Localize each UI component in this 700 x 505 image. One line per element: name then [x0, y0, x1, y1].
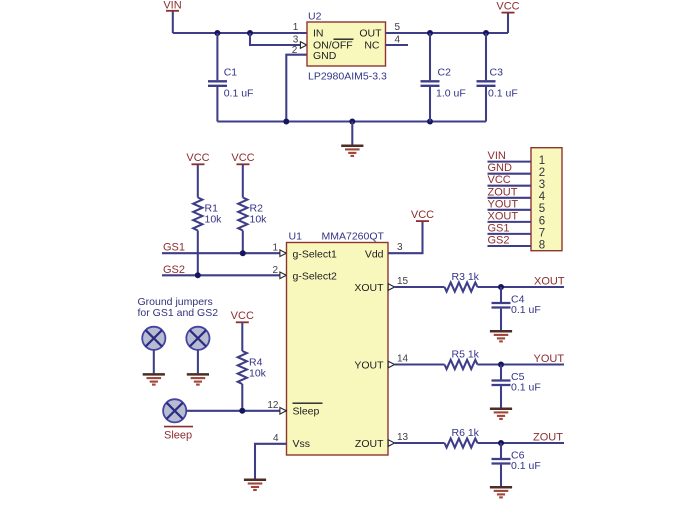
capacitor C5 [492, 365, 541, 408]
svg-text:XOUT: XOUT [354, 282, 384, 294]
svg-text:MMA7260QT: MMA7260QT [322, 231, 385, 243]
ground (below C5) [490, 409, 512, 419]
svg-text:4: 4 [273, 433, 279, 444]
junction C2 top [427, 30, 433, 36]
svg-text:7: 7 [539, 227, 545, 239]
junction C6 top [498, 440, 504, 446]
wire JP2 to ground [197, 350, 199, 374]
pin arrow U1 pin 13 [388, 440, 394, 447]
junction ground stem [349, 119, 355, 125]
svg-text:Vss: Vss [293, 438, 311, 450]
svg-text:4: 4 [395, 34, 401, 45]
jumper JP3 (Sleep) [163, 399, 186, 422]
svg-text:ZOUT: ZOUT [355, 438, 384, 450]
svg-text:2: 2 [272, 265, 278, 276]
svg-text:XOUT: XOUT [534, 275, 565, 287]
svg-text:5: 5 [395, 22, 401, 33]
svg-text:VCC: VCC [411, 209, 434, 221]
svg-text:12: 12 [267, 400, 279, 411]
capacitor C2 [421, 33, 466, 122]
svg-text:VCC: VCC [186, 152, 209, 164]
svg-text:8: 8 [539, 239, 545, 251]
svg-text:IN: IN [313, 27, 324, 39]
power flag VCC (above R4) [231, 310, 254, 351]
wire U2 pin2 GND down [286, 55, 307, 122]
svg-text:for GS1 and GS2: for GS1 and GS2 [138, 307, 219, 319]
svg-text:ZOUT: ZOUT [488, 186, 518, 198]
wire U2 OUT rail to VCC [386, 32, 509, 34]
pin arrow U1 pin 15 [388, 284, 394, 291]
svg-text:GND: GND [488, 162, 513, 174]
svg-text:NC: NC [364, 39, 380, 51]
wire connector pin4 stub [488, 197, 532, 199]
ground (top section) [341, 122, 363, 156]
svg-text:R6 1k: R6 1k [452, 427, 480, 439]
svg-text:VCC: VCC [496, 1, 519, 13]
power flag VCC (above R2) [231, 152, 254, 198]
connector JP4 8-pin header [531, 148, 562, 251]
svg-text:3: 3 [293, 34, 299, 45]
resistor R4 [238, 351, 267, 384]
wire connector pin1 stub [488, 161, 532, 163]
svg-text:g-Select2: g-Select2 [293, 270, 338, 282]
svg-text:0.1 uF: 0.1 uF [224, 88, 254, 100]
svg-text:C2: C2 [438, 67, 452, 79]
wire U1 ZOUT to R6 [395, 442, 445, 444]
svg-text:C1: C1 [224, 67, 238, 79]
pin arrow U1 pin 12 [280, 408, 286, 415]
junction R2 on GS1 [240, 250, 246, 256]
svg-text:1: 1 [539, 155, 545, 167]
svg-text:VIN: VIN [488, 150, 506, 162]
svg-text:10k: 10k [249, 368, 267, 380]
wire U2 NC stub [386, 44, 409, 46]
voltage regulator U2 [307, 11, 387, 83]
pin arrow U1 pin 1 [280, 250, 286, 257]
junction C2 bottom [427, 119, 433, 125]
svg-text:Sleep: Sleep [164, 429, 192, 441]
pin arrow U1 pin 2 [280, 272, 286, 279]
svg-text:ZOUT: ZOUT [533, 431, 563, 443]
capacitor C6 [492, 443, 541, 486]
svg-text:10k: 10k [205, 214, 223, 226]
wire top rail VIN to U2 pin1 [173, 32, 307, 34]
svg-text:10k: 10k [250, 214, 268, 226]
svg-text:C3: C3 [490, 67, 504, 79]
svg-text:VCC: VCC [231, 310, 254, 322]
svg-text:3: 3 [539, 179, 545, 191]
svg-text:3: 3 [397, 242, 403, 253]
wire R6 to ZOUT label [478, 442, 565, 444]
svg-text:14: 14 [397, 354, 409, 365]
junction C3 top [483, 30, 489, 36]
wire U2 pin3 branch [250, 33, 300, 45]
svg-text:g-Select1: g-Select1 [293, 248, 338, 260]
svg-text:XOUT: XOUT [488, 210, 519, 222]
svg-text:GS1: GS1 [488, 222, 510, 234]
wire R3 to XOUT label [478, 286, 565, 288]
svg-text:OUT: OUT [359, 27, 382, 39]
resistor R3 [445, 271, 480, 292]
capacitor C3 [477, 33, 518, 122]
svg-text:15: 15 [397, 276, 409, 287]
ground (below JP2) [187, 374, 209, 384]
wire R1 bottom to GS2 line [197, 231, 199, 276]
svg-text:VIN: VIN [163, 0, 181, 12]
wire GS1 to U1 pin1 [162, 252, 287, 254]
junction at C1 top [214, 30, 220, 36]
svg-text:GS2: GS2 [163, 264, 185, 276]
power flag VIN [163, 0, 181, 12]
wire connector pin2 stub [488, 173, 532, 175]
svg-text:1: 1 [293, 22, 299, 33]
svg-text:GND: GND [313, 50, 337, 62]
svg-text:Sleep: Sleep [293, 406, 320, 418]
junction C5 top [498, 362, 504, 368]
resistor R2 [238, 198, 267, 231]
svg-text:13: 13 [397, 432, 409, 443]
svg-text:GS2: GS2 [488, 235, 510, 247]
wire U1 YOUT to R5 [395, 363, 445, 365]
pin arrow U2 pin 3 [300, 42, 306, 49]
wire connector pin3 stub [488, 185, 532, 187]
accelerometer U1 MMA7260QT [287, 231, 389, 456]
wire connector pin5 stub [488, 209, 532, 211]
junction R4 on sleep line [239, 408, 245, 414]
svg-text:6: 6 [539, 215, 545, 227]
svg-text:R5 1k: R5 1k [452, 349, 480, 361]
svg-text:2: 2 [292, 45, 298, 56]
ground (below Vss) [244, 480, 266, 490]
svg-text:0.1 uF: 0.1 uF [511, 382, 541, 394]
junction pin2 at rail [283, 119, 289, 125]
wire JP1 to ground [153, 350, 155, 374]
ground (below C4) [490, 331, 512, 341]
note text Ground jumpers [138, 296, 219, 319]
wire VIN stem [172, 12, 174, 34]
svg-text:0.1 uF: 0.1 uF [511, 304, 541, 316]
wire connector pin8 stub [488, 245, 532, 247]
wire R5 to YOUT label [478, 363, 565, 365]
jumper JP1 (GS1 ground jumper) [142, 327, 165, 350]
svg-text:YOUT: YOUT [354, 359, 384, 371]
svg-text:YOUT: YOUT [488, 198, 519, 210]
wire U1 XOUT to R3 [395, 286, 445, 288]
pin arrow U1 pin 14 [388, 361, 394, 368]
svg-text:5: 5 [539, 203, 545, 215]
svg-text:VCC: VCC [488, 174, 511, 186]
svg-text:GS1: GS1 [163, 242, 185, 254]
wire connector pin6 stub [488, 221, 532, 223]
svg-text:1.0 uF: 1.0 uF [436, 88, 466, 100]
svg-text:LP2980AIM5-3.3: LP2980AIM5-3.3 [308, 71, 387, 83]
wire GS2 to U1 pin2 [162, 274, 287, 276]
wire R2 bottom to GS1 line [242, 231, 244, 254]
ground (below C6) [490, 487, 512, 497]
svg-text:0.1 uF: 0.1 uF [511, 460, 541, 472]
resistor R6 [445, 427, 480, 448]
svg-text:U2: U2 [308, 11, 322, 23]
svg-text:0.1 uF: 0.1 uF [488, 88, 518, 100]
power flag VCC (top right) [496, 1, 519, 34]
junction at pin3 branch [247, 30, 253, 36]
svg-text:YOUT: YOUT [534, 353, 565, 365]
wire U1 Vdd to VCC [388, 221, 423, 253]
resistor R1 [193, 198, 222, 231]
resistor R5 [445, 349, 480, 370]
wire R4 bottom to sleep line [241, 384, 243, 411]
jumper JP2 (GS2 ground jumper) [186, 327, 209, 350]
svg-text:VCC: VCC [231, 152, 254, 164]
svg-text:Vdd: Vdd [365, 248, 384, 260]
svg-text:1: 1 [272, 243, 278, 254]
wire U1 Vss to ground [255, 444, 287, 479]
capacitor C4 [492, 287, 541, 330]
junction C4 top [498, 284, 504, 290]
capacitor C1 [208, 33, 253, 122]
svg-text:2: 2 [539, 167, 545, 179]
power flag VCC (above Vdd) [411, 209, 434, 221]
svg-text:U1: U1 [289, 231, 303, 243]
ground (below JP1) [143, 374, 165, 384]
net label Sleep (with overline) [164, 427, 193, 442]
wire ground rail (top section) [217, 120, 486, 122]
power flag VCC (above R1) [186, 152, 209, 198]
wire connector pin7 stub [488, 233, 532, 235]
svg-text:R3 1k: R3 1k [452, 271, 480, 283]
svg-text:4: 4 [539, 191, 546, 203]
wire Sleep jumper to U1 pin12 [186, 410, 286, 412]
junction R1 on GS2 [195, 272, 201, 278]
